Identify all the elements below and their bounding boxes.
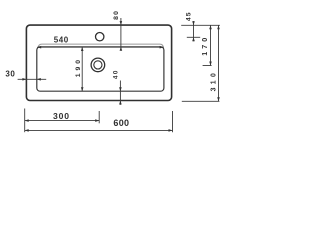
svg-text:170: 170 (200, 38, 209, 56)
svg-text:45: 45 (186, 12, 193, 21)
svg-text:190: 190 (75, 60, 82, 78)
svg-text:80: 80 (113, 11, 120, 20)
svg-text:30: 30 (5, 69, 15, 78)
svg-text:310: 310 (211, 73, 218, 91)
svg-text:300: 300 (53, 111, 69, 121)
svg-text:40: 40 (113, 70, 120, 79)
svg-text:600: 600 (113, 118, 129, 128)
svg-text:540: 540 (54, 36, 69, 45)
